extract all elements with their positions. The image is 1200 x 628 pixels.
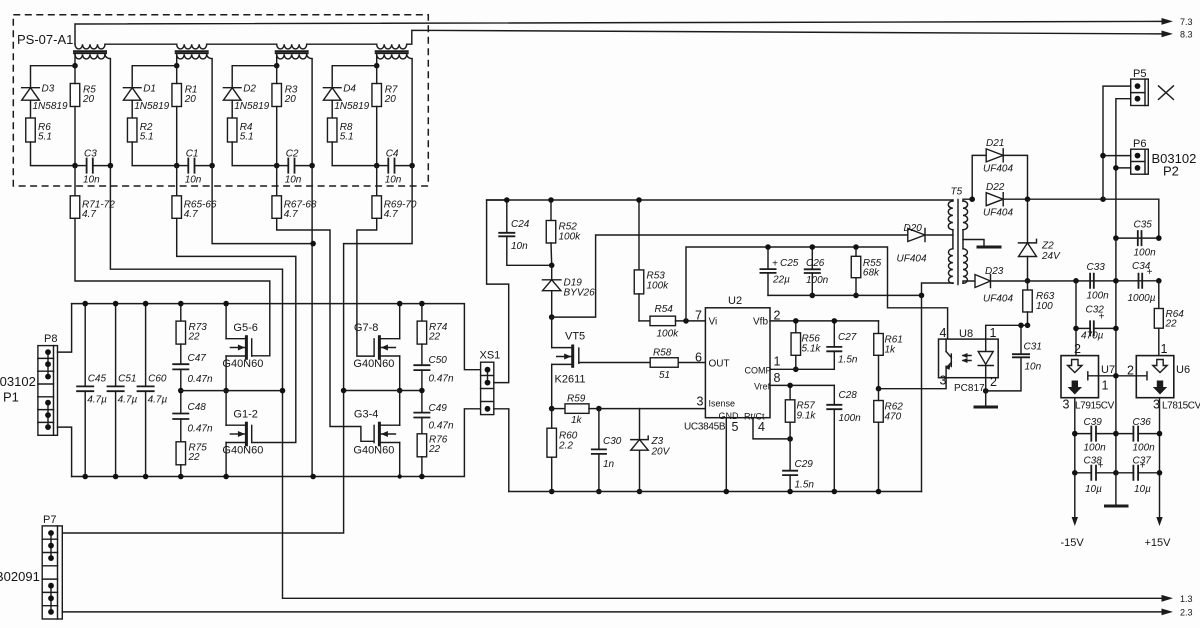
- svg-text:C49: C49: [429, 403, 448, 414]
- svg-text:4.7µ: 4.7µ: [148, 395, 168, 406]
- node cell2 winding dot: [174, 63, 180, 69]
- wire U8 pin3: [879, 378, 947, 389]
- capacitor C29 1.5n: [782, 439, 814, 492]
- wire U7 pin3 down: [1074, 398, 1076, 519]
- wire XS1 pin2 to primary rail: [487, 200, 509, 383]
- diode D22 UF404: [983, 182, 1013, 219]
- svg-text:T5: T5: [951, 187, 963, 198]
- wire P5 pin2 spine: [1116, 99, 1131, 238]
- connector P6: [1131, 149, 1149, 174]
- wire bottom winding left lead to node: [74, 54, 76, 65]
- resistor R54 100k: [639, 304, 679, 340]
- svg-text:4.7: 4.7: [184, 209, 198, 220]
- svg-text:22: 22: [428, 332, 441, 343]
- wire G5-6 source: [225, 356, 227, 391]
- node C33 left / C32 drop: [1073, 278, 1079, 284]
- node C24/R52/D19: [549, 263, 555, 269]
- node C32 right spine: [1113, 326, 1119, 332]
- svg-text:C4: C4: [386, 149, 399, 160]
- svg-text:5.1: 5.1: [140, 132, 154, 143]
- svg-text:2.2: 2.2: [558, 441, 573, 452]
- node C26 bottom: [810, 293, 816, 299]
- node C38 right: [1113, 470, 1119, 476]
- node P5/P6 spine top: [1100, 196, 1106, 202]
- svg-text:1: 1: [990, 326, 997, 340]
- node R60 bottom: [549, 489, 555, 495]
- svg-text:D21: D21: [986, 138, 1004, 149]
- capacitor C28 100n: [826, 385, 861, 491]
- capacitor C26 100n: [804, 247, 829, 295]
- svg-text:C33: C33: [1087, 262, 1106, 273]
- wire bridge top rail: [72, 304, 481, 370]
- node spine regulator junction: [1113, 373, 1119, 379]
- svg-text:10n: 10n: [1025, 362, 1042, 373]
- svg-text:PC817: PC817: [954, 383, 985, 394]
- svg-text:G1-2: G1-2: [233, 409, 257, 421]
- capacitor C30 1n: [591, 409, 622, 492]
- diode D19 BYV26: [543, 265, 596, 317]
- transformer T5: [948, 187, 967, 285]
- svg-text:5: 5: [732, 420, 739, 434]
- wire opto LED anode line: [986, 325, 1028, 339]
- resistor R75 22: [176, 419, 207, 477]
- wire R58 to OUT pin6: [678, 362, 705, 364]
- node left mid rail to 1.3 drop: [280, 388, 286, 394]
- node cell4 winding dot: [374, 63, 380, 69]
- resistor R63 100: [1023, 281, 1055, 326]
- capacitor C47 0.47n: [172, 344, 213, 385]
- wire D3 to R6: [30, 100, 32, 118]
- wire U6 pin3 down: [1159, 398, 1161, 519]
- resistor R1 20: [172, 84, 198, 107]
- arrow 8.3: [1162, 31, 1174, 38]
- wire bridge bottom rail: [72, 409, 481, 477]
- node G1-2 source: [223, 474, 229, 480]
- arrow 7.3: [1162, 18, 1174, 25]
- svg-text:C60: C60: [148, 374, 167, 385]
- node cell3 winding dot: [274, 63, 280, 69]
- node C31 top tap: [1018, 323, 1024, 329]
- svg-text:1N5819: 1N5819: [334, 101, 369, 112]
- svg-text:3: 3: [697, 395, 704, 409]
- node G3-4 source: [398, 474, 402, 478]
- svg-text:4.7µ: 4.7µ: [118, 395, 138, 406]
- node spine output rail: [1113, 278, 1119, 284]
- svg-text:470µ: 470µ: [1081, 331, 1104, 342]
- arrow +15V: [1156, 517, 1162, 526]
- node pin5 ground: [724, 489, 730, 495]
- wire R67-68 to G3-4 gate: [277, 218, 374, 441]
- wire aux return rail: [768, 283, 953, 295]
- svg-text:UF404: UF404: [983, 164, 1013, 175]
- wire primary supply rail: [487, 199, 953, 201]
- wire node to R1 and down: [176, 66, 178, 84]
- svg-text:4.7: 4.7: [82, 209, 96, 220]
- svg-text:2.3: 2.3: [1180, 608, 1193, 618]
- svg-text:C2: C2: [286, 149, 299, 160]
- wire bottom winding left lead to node: [176, 54, 178, 65]
- resistor R69-70 4.7: [372, 196, 417, 220]
- svg-text:1.5n: 1.5n: [795, 480, 815, 491]
- svg-text:C30: C30: [603, 436, 622, 447]
- svg-text:Z2: Z2: [1041, 241, 1054, 252]
- node G7-8 source: [397, 388, 403, 394]
- wire C row: [277, 165, 289, 167]
- svg-text:6: 6: [695, 351, 702, 365]
- wire diode branch top: [232, 66, 277, 88]
- wire right mid rail: [344, 390, 422, 392]
- zener Z3 20V: [631, 409, 671, 492]
- svg-text:24V: 24V: [1041, 251, 1061, 262]
- node R59/C30/Isense: [596, 406, 602, 412]
- wire D21 branch: [972, 155, 986, 199]
- op-amp U2 UC3845B box: [705, 295, 771, 422]
- svg-text:-15V: -15V: [1061, 537, 1085, 549]
- svg-text:+: +: [1140, 461, 1146, 472]
- wire G5-6 drain: [225, 304, 227, 339]
- gate transformer T3 (cell D2): [275, 44, 312, 59]
- node right mid rail left end: [341, 388, 347, 394]
- capacitor C37 10u: [1116, 456, 1160, 496]
- svg-text:20: 20: [384, 94, 397, 105]
- wire control ground rail: [509, 491, 922, 493]
- wire secondary mid tap to ground: [962, 230, 964, 249]
- node C35 left: [1113, 235, 1119, 241]
- capacitor C60 4.7u: [137, 304, 168, 477]
- svg-text:B02091: B02091: [0, 569, 40, 584]
- wire D2 to R4: [231, 100, 233, 118]
- wire diode branch top: [332, 66, 377, 88]
- svg-text:C47: C47: [188, 353, 207, 364]
- wire G7-8 drain: [399, 304, 401, 339]
- node C25 top: [765, 244, 771, 250]
- svg-text:R54: R54: [655, 304, 674, 315]
- wire T5 primary tap link: [952, 230, 954, 249]
- svg-text:C29: C29: [795, 459, 814, 470]
- svg-text:P6: P6: [1133, 138, 1146, 150]
- wire D4 to R8: [331, 100, 333, 118]
- svg-text:22: 22: [188, 332, 201, 343]
- svg-text:UF404: UF404: [983, 294, 1013, 305]
- capacitor C34 1000u: [1128, 261, 1156, 304]
- wire node to R7 and down: [376, 66, 378, 84]
- svg-text:8: 8: [774, 371, 781, 385]
- node C38 left: [1072, 470, 1078, 476]
- svg-text:L7815CV: L7815CV: [1162, 401, 1200, 412]
- node R56 bottom: [793, 367, 799, 373]
- svg-text:10n: 10n: [83, 175, 100, 186]
- diode D23 UF404: [975, 266, 1013, 305]
- diode D2 1N5819: [223, 84, 269, 113]
- svg-text:U8: U8: [959, 328, 973, 340]
- svg-text:10µ: 10µ: [1134, 484, 1151, 495]
- svg-text:4: 4: [940, 326, 947, 340]
- arrow 2.3: [1162, 609, 1174, 616]
- svg-text:9.1k: 9.1k: [797, 411, 817, 422]
- regulator U7 L7915CV: [1061, 356, 1099, 398]
- svg-text:5.1: 5.1: [240, 132, 254, 143]
- ground secondary center tap: [977, 246, 1002, 249]
- svg-text:1N5819: 1N5819: [33, 101, 68, 112]
- svg-text:C28: C28: [839, 390, 858, 401]
- svg-text:D22: D22: [986, 182, 1005, 193]
- wire COMP pin1: [770, 368, 834, 370]
- node C60 bottom: [143, 474, 149, 480]
- svg-text:0.47n: 0.47n: [188, 424, 213, 435]
- wire Vcc rail: [768, 247, 948, 339]
- resistor R4 5.1: [227, 118, 253, 143]
- wire G1-2 source: [225, 443, 227, 477]
- resistor R57 9.1k: [785, 385, 816, 439]
- wire T5 secondary top lead: [963, 199, 972, 201]
- connector P5: [1131, 79, 1149, 105]
- diode D4 1N5819: [323, 84, 369, 113]
- wire drain node to primary winding: [552, 235, 908, 317]
- svg-text:D20: D20: [904, 223, 923, 234]
- svg-text:5.1: 5.1: [38, 132, 52, 143]
- gate transformer T1 (cell D3): [73, 44, 110, 59]
- wire P8 pin1 to top rail: [58, 304, 72, 353]
- node C60 top: [143, 301, 149, 307]
- transistor G3-4 G40N60: [353, 409, 399, 457]
- wire aux ground drop: [921, 295, 923, 491]
- node C36 right: [1157, 431, 1163, 437]
- svg-text:51: 51: [659, 370, 670, 381]
- wire G1-2 drain: [225, 391, 227, 426]
- svg-text:Z3: Z3: [651, 436, 664, 447]
- wire cell1 return to mid rail and 1.3 line: [110, 166, 1162, 599]
- wire G3-4 source: [399, 443, 401, 477]
- wire G3-4 drain: [399, 391, 401, 426]
- svg-text:U6: U6: [1176, 364, 1190, 376]
- wire R71-72 to G5-6 gate: [75, 218, 270, 355]
- svg-text:C45: C45: [88, 374, 107, 385]
- svg-text:G40N60: G40N60: [222, 358, 263, 370]
- node R75 bottom: [178, 474, 184, 480]
- svg-text:1N5819: 1N5819: [234, 101, 269, 112]
- svg-text:1k: 1k: [885, 345, 897, 356]
- wire T5 aux bottom lead: [952, 282, 954, 284]
- node right mid rail at C50/C49: [419, 388, 425, 394]
- capacitor C32 470u: [1076, 305, 1116, 342]
- node C24 top: [504, 197, 510, 203]
- transistor G7-8 G40N60: [353, 322, 399, 370]
- svg-text:4: 4: [758, 420, 765, 434]
- wire R6 to C row: [31, 142, 76, 166]
- node G5-6 source: [223, 388, 229, 394]
- wire down to R65-66: [176, 166, 178, 196]
- svg-text:OUT: OUT: [709, 359, 730, 370]
- resistor R53 100k: [634, 200, 669, 321]
- svg-text:+: +: [1099, 312, 1105, 323]
- wire D21 cathode return: [1005, 155, 1028, 199]
- wire spine to output ground: [1115, 473, 1117, 504]
- node cell2/cell3 return: [310, 241, 316, 247]
- resistor R71-72 4.7: [70, 196, 115, 220]
- wire left mid rail: [181, 390, 283, 392]
- svg-text:1: 1: [1161, 342, 1168, 356]
- svg-text:C25: C25: [780, 258, 799, 269]
- svg-text:4.7µ: 4.7µ: [87, 395, 107, 406]
- svg-text:7: 7: [695, 309, 702, 323]
- node D19/VT5 drain: [549, 314, 555, 320]
- svg-text:D2: D2: [243, 84, 256, 95]
- wire right terminal lead: [311, 59, 313, 166]
- svg-text:100k: 100k: [657, 329, 680, 340]
- wire C row: [377, 165, 389, 167]
- wire Vfb pin2 line: [770, 320, 879, 322]
- capacitor C39 100n: [1075, 417, 1116, 454]
- svg-text:100: 100: [1036, 301, 1053, 312]
- wire P7 pin7 to 2.3: [62, 611, 1162, 613]
- svg-text:Vref: Vref: [754, 382, 771, 392]
- svg-text:4.7: 4.7: [384, 209, 398, 220]
- resistor R56 5.1k: [791, 321, 821, 369]
- wire right terminal lead: [109, 59, 111, 166]
- svg-text:5.1: 5.1: [340, 132, 354, 143]
- node C39 right: [1113, 431, 1119, 437]
- svg-text:UF404: UF404: [897, 254, 927, 265]
- diode U8 LED: [978, 339, 993, 378]
- capacitor C1 10n: [185, 149, 202, 186]
- svg-text:10n: 10n: [285, 175, 302, 186]
- node left C C4: [374, 163, 380, 169]
- node D21/D22 anode: [969, 196, 975, 202]
- svg-text:1: 1: [774, 355, 781, 369]
- wire main spine: [1115, 238, 1117, 473]
- node R52 top: [548, 197, 554, 203]
- node left C C1: [174, 163, 180, 169]
- svg-text:G40N60: G40N60: [353, 358, 394, 370]
- svg-text:G7-8: G7-8: [354, 322, 378, 334]
- node right C C1: [209, 163, 215, 169]
- svg-text:10n: 10n: [185, 175, 202, 186]
- diode D1 1N5819: [123, 84, 169, 113]
- capacitor C45 4.7u: [76, 304, 107, 477]
- wire R65-66 to G1-2 gate: [177, 218, 296, 442]
- capacitor C25 22u: [760, 247, 799, 295]
- svg-text:100n: 100n: [1087, 291, 1110, 302]
- node C26 top: [810, 244, 816, 250]
- svg-text:K2611: K2611: [555, 374, 586, 386]
- wire T5 primary top lead: [952, 200, 954, 201]
- svg-text:Vi: Vi: [709, 317, 718, 328]
- wire C50 to C49: [421, 370, 423, 413]
- node R63 bottom: [1025, 323, 1031, 329]
- node R53 top: [636, 197, 642, 203]
- capacitor C2 10n: [285, 149, 302, 186]
- svg-text:1.5n: 1.5n: [838, 355, 858, 366]
- svg-text:4.7: 4.7: [284, 209, 298, 220]
- wire VT5 source to R59 node: [551, 364, 553, 408]
- node cell1 winding dot: [72, 63, 78, 69]
- wire C row: [177, 165, 189, 167]
- svg-text:C3: C3: [84, 149, 97, 160]
- node R73 top: [178, 301, 184, 307]
- diode D20 UF404: [897, 223, 927, 265]
- ground opto: [974, 406, 999, 409]
- wire 8.3 feed line: [407, 30, 1162, 44]
- svg-text:XS1: XS1: [480, 350, 501, 362]
- wire C47 to C48: [180, 369, 182, 413]
- light arrows: [963, 356, 971, 361]
- capacitor C24 10n: [498, 200, 551, 265]
- svg-text:8.3: 8.3: [1180, 30, 1193, 40]
- svg-text:100n: 100n: [1084, 443, 1107, 454]
- wire P6 pin2: [1116, 167, 1131, 169]
- wire gate-transformer series bus: [105, 43, 177, 45]
- arrow -15V: [1072, 517, 1078, 526]
- node G7-8 drain: [397, 301, 403, 307]
- zener Z2 24V: [1019, 199, 1062, 281]
- wire G7-8 source: [399, 356, 401, 391]
- node right C C4: [409, 163, 415, 169]
- resistor R65-66 4.7: [172, 196, 217, 220]
- svg-text:22: 22: [1165, 319, 1178, 330]
- transistor U8 phototransistor: [946, 339, 952, 378]
- capacitor C35 100n: [1116, 220, 1159, 259]
- wire P6 pin1: [1103, 155, 1131, 157]
- node pin4/R57/C29: [787, 436, 793, 442]
- svg-text:UC3845B: UC3845B: [684, 422, 726, 433]
- capacitor C31 10n: [986, 325, 1042, 391]
- node C30 bottom: [596, 489, 602, 495]
- wire Isense pin3: [599, 408, 706, 410]
- node Z3 bottom: [637, 489, 643, 495]
- capacitor C3 10n: [83, 149, 100, 186]
- resistor R61 1k: [874, 321, 903, 389]
- resistor R8 5.1: [327, 118, 353, 143]
- svg-text:10µ: 10µ: [1085, 484, 1102, 495]
- svg-text:UF404: UF404: [983, 208, 1013, 219]
- wire right terminal lead: [211, 59, 213, 166]
- resistor R3 20: [272, 84, 298, 107]
- node R62 bottom: [876, 489, 882, 495]
- wire diode branch top: [31, 66, 76, 88]
- svg-text:+: +: [772, 259, 778, 270]
- svg-text:1n: 1n: [603, 459, 615, 470]
- svg-text:L7915CV: L7915CV: [1075, 401, 1115, 412]
- svg-text:10n: 10n: [511, 241, 528, 252]
- node C37 right: [1157, 470, 1163, 476]
- svg-text:D23: D23: [985, 266, 1004, 277]
- svg-text:C31: C31: [1024, 342, 1042, 353]
- wire right spine 24V down: [1158, 199, 1160, 238]
- gate transformer T2 (cell D1): [175, 44, 212, 59]
- wire down to R69-70: [376, 166, 378, 196]
- X mark unused: [1159, 86, 1174, 100]
- node R56 top: [793, 318, 799, 324]
- svg-text:100n: 100n: [839, 413, 862, 424]
- wire down to R71-72: [74, 166, 76, 196]
- svg-text:VT5: VT5: [565, 331, 585, 343]
- node R57 top: [787, 383, 793, 389]
- svg-text:C36: C36: [1133, 417, 1152, 428]
- wire diode branch top: [132, 66, 177, 88]
- node D21 return: [1025, 196, 1031, 202]
- ground output: [1104, 505, 1129, 508]
- resistor R2 5.1: [127, 118, 153, 143]
- svg-text:100n: 100n: [1134, 248, 1157, 259]
- wire P8 pin7 to bottom rail: [58, 427, 72, 476]
- resistor R52 100k: [546, 200, 581, 265]
- svg-text:0.47n: 0.47n: [429, 374, 454, 385]
- opto-coupler U8 PC817 box: [939, 328, 999, 378]
- capacitor C4 10n: [385, 149, 402, 186]
- svg-text:22: 22: [188, 452, 201, 463]
- svg-text:PS-07-A1: PS-07-A1: [17, 32, 73, 47]
- capacitor C27 1.5n: [826, 321, 858, 369]
